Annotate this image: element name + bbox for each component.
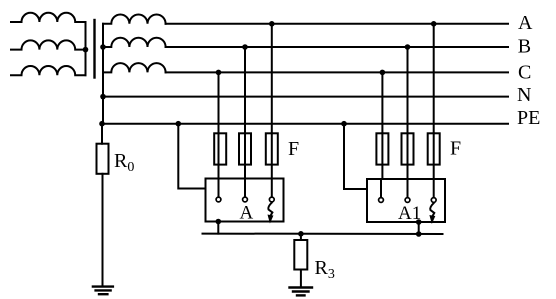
svg-text:R0: R0: [114, 150, 134, 175]
svg-text:B: B: [518, 36, 531, 58]
transformer primary winding W1b: [11, 40, 86, 49]
terminal 3 of A1: [433, 179, 435, 197]
wire R3 to ground: [300, 270, 302, 287]
svg-text:C: C: [518, 62, 531, 84]
fuse F1b: [239, 133, 251, 164]
svg-text:PE: PE: [517, 107, 540, 129]
fuse F2b: [402, 133, 414, 164]
svg-text:A: A: [240, 203, 254, 224]
node R3 tap: [298, 231, 304, 237]
svg-text:R3: R3: [315, 257, 335, 282]
wire tap from A to fuse group 1: [271, 24, 273, 134]
node secondary bus at PE line: [99, 121, 105, 127]
node A bottom: [216, 219, 222, 225]
terminal 2 of A: [244, 179, 246, 197]
node tap C1: [216, 70, 222, 76]
fuse F2c: [428, 133, 440, 164]
transformer core: [93, 20, 95, 78]
node PE drop A1: [341, 121, 347, 127]
wire earthing bus: [203, 233, 443, 235]
node secondary bus at N line: [100, 94, 106, 100]
node primary star point: [83, 47, 89, 53]
node tap B2: [405, 44, 411, 50]
wire phase line B: [166, 46, 508, 48]
svg-text:A: A: [518, 12, 533, 34]
wire phase line C: [166, 71, 508, 73]
wire bus to R3: [300, 234, 302, 240]
fault lightning in A: [268, 203, 273, 223]
appliance box A: [206, 179, 284, 222]
fault lightning in A1: [430, 203, 435, 223]
fuse F2a: [376, 133, 388, 164]
terminal 1 of A1: [380, 179, 382, 197]
transformer primary winding W1c: [11, 66, 86, 75]
transformer primary winding W1a: [11, 13, 86, 22]
wire through fuse F1c: [271, 133, 273, 178]
ground of R0: [93, 287, 113, 295]
wire tap from B to fuse group 1: [244, 47, 246, 133]
wire through fuse F2a: [381, 133, 383, 179]
node tap C2: [380, 70, 386, 76]
wire tap from C to fuse group 1: [218, 72, 220, 133]
transformer secondary winding W2a: [103, 14, 166, 23]
resistor R3: [294, 240, 307, 270]
wire protective earth line PE: [103, 123, 508, 125]
terminal 2 of A1: [407, 179, 409, 197]
wire secondary neutral bus: [102, 24, 104, 124]
wire phase line A: [166, 23, 508, 25]
wire through fuse F1b: [244, 133, 246, 178]
node PE drop A: [176, 121, 182, 127]
wire R0 to ground: [102, 174, 104, 286]
ground of R3: [290, 288, 313, 296]
node A1 bottom bus: [416, 231, 422, 237]
wire tap from A to fuse group 2: [433, 24, 435, 134]
wire primary neutral bus: [85, 22, 87, 75]
node tap A2: [431, 21, 437, 27]
node tap B1: [242, 44, 248, 50]
appliance box A1: [367, 179, 445, 222]
wire A bottom stub: [217, 222, 219, 234]
fuse F1c: [266, 133, 278, 164]
node secondary bus at B winding: [100, 44, 106, 50]
wire tap from B to fuse group 2: [407, 47, 409, 133]
transformer secondary winding W2c: [103, 63, 166, 72]
resistor R0: [97, 144, 109, 174]
transformer secondary winding W2b: [103, 38, 166, 47]
node A1 bottom top: [416, 219, 422, 225]
wire through fuse F2c: [433, 133, 435, 179]
terminal 3 of A: [271, 179, 273, 197]
wire PE to R0: [101, 124, 103, 144]
node tap A1: [269, 21, 275, 27]
wire through fuse F1a: [218, 133, 220, 178]
wire tap from C to fuse group 2: [381, 72, 383, 133]
wire PE drop to appliance A1: [344, 124, 367, 189]
wire neutral line N: [103, 96, 508, 98]
svg-text:F: F: [288, 138, 299, 160]
wire through fuse F2b: [407, 133, 409, 179]
svg-text:F: F: [450, 138, 461, 160]
fuse F1a: [214, 133, 226, 164]
terminal 1 of A: [218, 179, 220, 197]
svg-text:N: N: [517, 84, 531, 106]
wire A1 bottom stub: [418, 222, 420, 234]
wire PE drop to appliance A: [178, 124, 205, 189]
